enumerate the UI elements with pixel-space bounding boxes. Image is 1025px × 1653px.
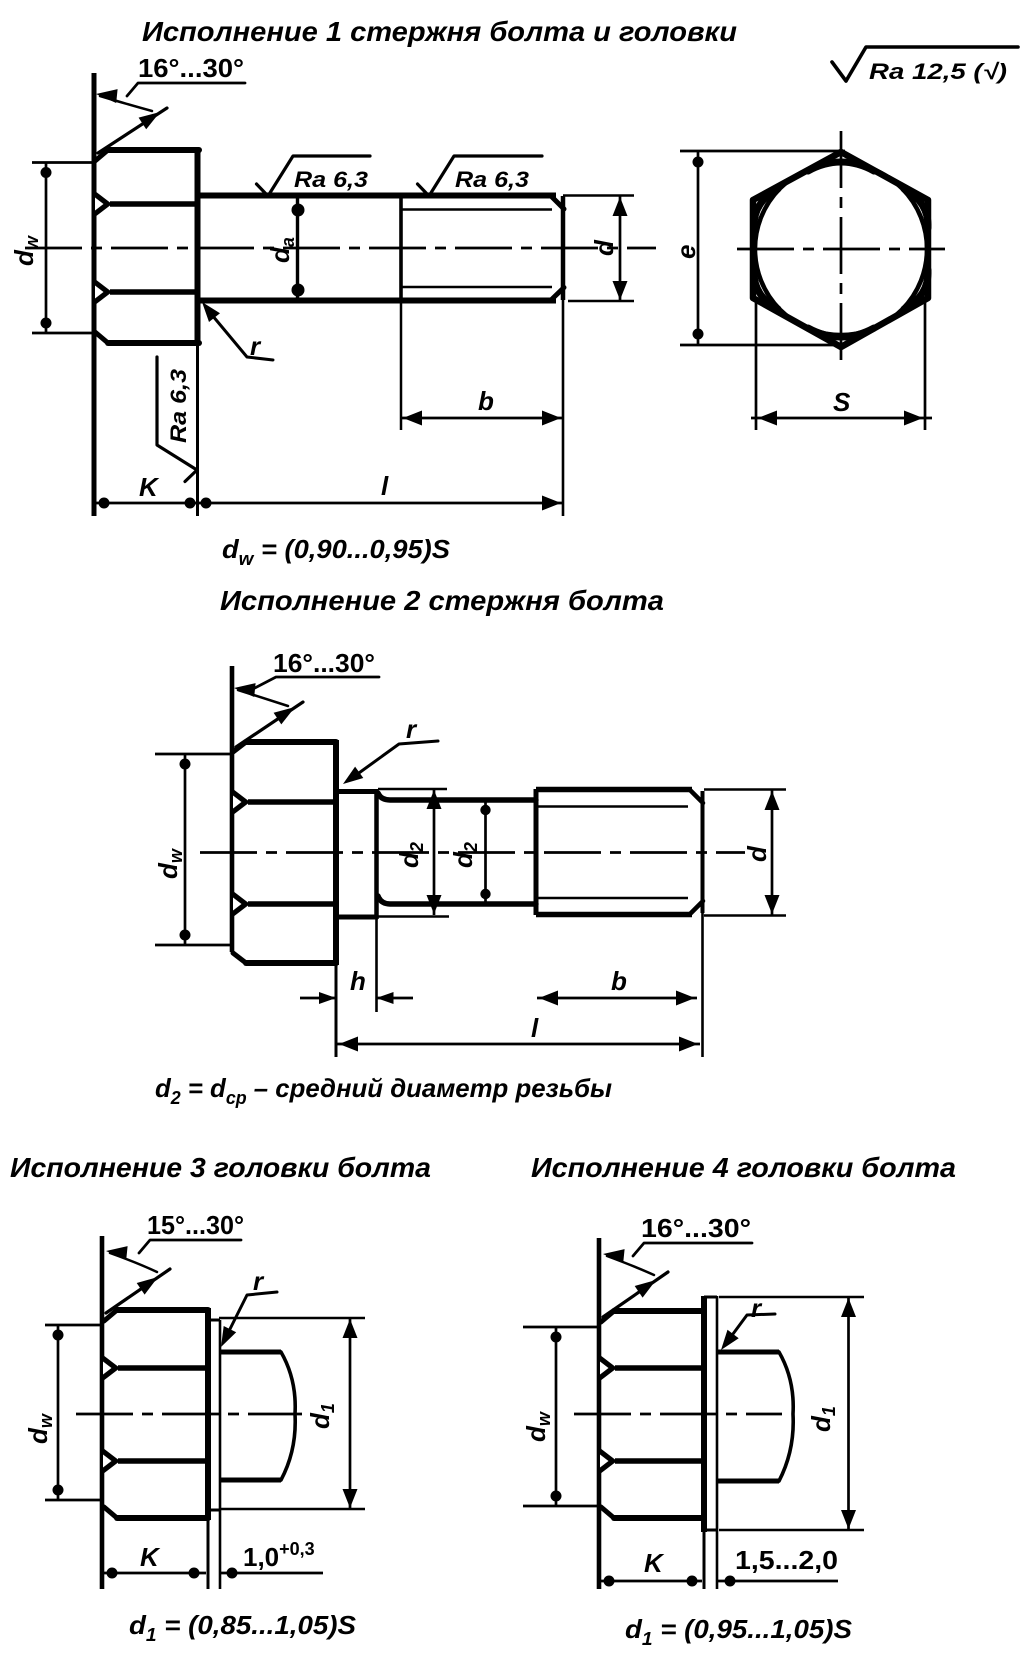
hex view vertical center line — [840, 131, 843, 368]
inscribed circle (washer face) — [755, 163, 927, 335]
svg-text:Исполнение 2 стержня болта: Исполнение 2 стержня болта — [220, 585, 664, 616]
svg-text:Ra 6,3: Ra 6,3 — [455, 167, 529, 192]
view2 head right edge extension down — [335, 965, 338, 1057]
view2 chamfer angle arrowhead — [274, 707, 295, 724]
head bottom-left chamfer — [95, 332, 108, 343]
h dim right tail — [376, 997, 413, 1000]
dim 1,5 dot — [725, 1576, 736, 1587]
view3 head right edge (flange left) — [205, 1308, 211, 1520]
svg-text:d2 = dср – средний диаметр рез: d2 = dср – средний диаметр резьбы — [155, 1073, 612, 1108]
chamfer arc bottom corner — [808, 328, 874, 337]
head right edge — [195, 148, 201, 345]
view4 flange bottom — [704, 1529, 717, 1532]
collar top line — [336, 789, 378, 794]
reduced shank top line — [378, 793, 536, 800]
view3 head bottom line — [117, 1515, 208, 1521]
angle leader — [127, 83, 245, 96]
view4 dome bottom line — [717, 1479, 779, 1484]
facet notch 1 — [93, 190, 112, 219]
K dimension line — [94, 502, 197, 505]
view4 K dimension line — [599, 1580, 702, 1583]
chamfer extension line — [98, 108, 167, 153]
collar bottom extension right — [378, 915, 449, 918]
view2 l right arrow — [679, 1037, 698, 1052]
chamfer arc upper-right corner — [904, 189, 928, 228]
view3 d_w bottom extension — [45, 1499, 102, 1502]
b left arrow — [403, 411, 422, 426]
view2 l dimension line — [337, 1043, 700, 1046]
view4 head right edge (flange left) — [701, 1296, 707, 1532]
shank bottom line — [199, 298, 556, 304]
hex head outline — [753, 152, 928, 347]
svg-text:K: K — [140, 1542, 161, 1572]
svg-text:d1 = (0,85...1,05)S: d1 = (0,85...1,05)S — [129, 1610, 357, 1645]
S right arrow — [904, 411, 923, 426]
view4 head bottom-left chamfer — [601, 1507, 614, 1518]
view2 thread minor bottom — [538, 897, 688, 900]
svg-text:S: S — [833, 387, 851, 417]
view4 K right dot — [687, 1576, 698, 1587]
view4 facet line 1 — [615, 1365, 704, 1371]
view4 d_w top extension — [523, 1326, 599, 1329]
thread start extension down — [400, 301, 403, 430]
e top extension line — [680, 150, 845, 153]
dim 1,0 dot — [227, 1568, 238, 1579]
thread start line — [399, 195, 403, 301]
view4 facet notch 1 — [598, 1354, 617, 1383]
view3 K left dot — [107, 1568, 118, 1579]
roughness Ra 6,3 on shank — [257, 156, 371, 196]
svg-text:16°...30°: 16°...30° — [641, 1213, 751, 1243]
view3 flange left extension down — [207, 1520, 210, 1589]
svg-text:Ra 12,5 (√): Ra 12,5 (√) — [869, 59, 1007, 84]
view4 flange right line — [716, 1296, 719, 1589]
view4 head top line — [614, 1308, 704, 1314]
view2 head top line — [246, 739, 336, 745]
head right edge extension down — [196, 345, 199, 516]
view3 angle leader arrow — [106, 1246, 128, 1260]
bolt end face — [561, 196, 566, 300]
view2 b left arrow — [539, 991, 558, 1006]
view4 r leader — [730, 1314, 775, 1338]
view2 angle leader arrow — [234, 683, 256, 697]
hex view horizontal center line — [737, 248, 945, 251]
view4 d1 top arrow — [841, 1298, 856, 1317]
S dimension line — [751, 417, 932, 420]
view2 angle dimension arc — [238, 690, 288, 706]
angle leader arrow — [96, 89, 118, 103]
view4 center line — [574, 1413, 782, 1416]
view4 d1 bottom extension — [719, 1529, 864, 1532]
view2 end face — [701, 791, 705, 913]
view3 angle dimension arc — [110, 1253, 157, 1272]
view2 d bottom extension — [704, 914, 786, 917]
thread minor diameter bottom — [402, 286, 552, 289]
b right arrow — [542, 411, 561, 426]
svg-text:b: b — [611, 966, 627, 996]
K right dot — [185, 498, 196, 509]
view3 facet line 2 — [118, 1458, 208, 1464]
view3 dome arc — [281, 1352, 295, 1480]
view2 d_w bottom dot — [180, 930, 191, 941]
dim 1,0+0,3 line — [220, 1572, 323, 1575]
view2 thread major top — [536, 787, 692, 792]
svg-text:e: e — [671, 245, 701, 259]
view4 angle leader arrow — [603, 1249, 625, 1263]
view2 head top-left chamfer — [233, 742, 246, 752]
view3 head bottom-left chamfer — [104, 1507, 117, 1518]
d_w bottom extension line — [32, 332, 94, 335]
K left dot — [99, 498, 110, 509]
h right arrow (outside) — [377, 992, 394, 1004]
view2 facet line 1 — [248, 799, 336, 805]
svg-text:d: d — [742, 845, 772, 862]
svg-text:h: h — [350, 966, 366, 996]
d2-1 bottom arrow — [427, 895, 442, 914]
view2 d_w bottom extension — [155, 944, 232, 947]
head bearing face / left extension line — [92, 73, 97, 516]
view4 angle dimension arc — [607, 1256, 654, 1275]
chamfer arc lower-right corner — [904, 270, 928, 309]
b dimension line — [401, 417, 563, 420]
view2 b dimension line — [537, 997, 697, 1000]
view2 facet notch 2 — [231, 890, 250, 919]
svg-text:Исполнение 4 головки болта: Исполнение 4 головки болта — [531, 1152, 956, 1183]
view3 head top line — [117, 1307, 208, 1313]
svg-text:Ra 6,3: Ra 6,3 — [294, 167, 368, 192]
view4 facet line 2 — [615, 1458, 704, 1464]
view3 center line — [76, 1413, 302, 1416]
d bottom arrow — [613, 281, 628, 300]
svg-text:Исполнение 1 стержня болта и г: Исполнение 1 стержня болта и головки — [142, 16, 737, 47]
view3 r leader — [228, 1292, 277, 1333]
view4 chamfer extension line — [603, 1272, 668, 1317]
collar right edge — [374, 789, 379, 919]
view3 flange bottom — [208, 1509, 220, 1512]
view4 d1 top extension — [719, 1296, 864, 1299]
d top arrow — [613, 197, 628, 216]
view4 d_w top dot — [551, 1332, 562, 1343]
svg-text:b: b — [478, 386, 494, 416]
view3 r leader arrow — [221, 1326, 236, 1347]
svg-text:d: d — [589, 239, 619, 256]
shank top line — [199, 193, 556, 199]
view3 d1 dimension line — [349, 1318, 352, 1509]
svg-text:Ra 6,3: Ra 6,3 — [166, 369, 191, 443]
view2 thread minor top — [538, 805, 688, 808]
d_a dimension line — [296, 196, 299, 300]
d dimension line — [619, 196, 622, 302]
view3 facet notch 2 — [101, 1447, 120, 1476]
view2 end face extension down — [701, 913, 704, 1057]
view4 d_w bottom dot — [551, 1491, 562, 1502]
view2 left extension line — [230, 666, 235, 952]
svg-text:1,5...2,0: 1,5...2,0 — [735, 1545, 838, 1575]
angle dimension arc — [100, 96, 152, 111]
e bottom dot — [693, 329, 704, 340]
svg-text:K: K — [644, 1548, 665, 1578]
view3 K right dot — [189, 1568, 200, 1579]
dim 1,5...2,0 line — [718, 1580, 838, 1583]
e bottom extension line — [680, 344, 845, 347]
view4 head top-left chamfer — [601, 1311, 614, 1322]
head facet line 2 — [110, 289, 199, 295]
view4 dome top line — [717, 1350, 779, 1355]
view3 left line — [100, 1236, 105, 1589]
view4 angle leader — [633, 1243, 752, 1256]
view2 head right edge — [333, 740, 339, 965]
d_w dimension line — [45, 163, 48, 334]
view2 facet notch 1 — [231, 788, 250, 817]
view3 dome top line — [220, 1350, 281, 1355]
view2 angle leader — [249, 677, 379, 691]
d_a top dot — [292, 204, 305, 217]
view2 end chamfer bottom — [690, 901, 703, 914]
view2 center line — [200, 851, 745, 854]
d_w top extension line — [32, 161, 94, 164]
roughness Ra 6,3 on thread — [418, 156, 543, 196]
view4 d1 bottom arrow — [841, 1510, 856, 1529]
svg-text:K: K — [139, 472, 160, 502]
view2 l left arrow — [339, 1037, 358, 1052]
view2 thread major bottom — [536, 912, 692, 917]
head top line — [108, 147, 199, 153]
view2 end chamfer top — [690, 790, 703, 803]
view3 d1 top extension — [219, 1317, 365, 1320]
view3 K dimension line — [102, 1572, 206, 1575]
svg-text:dw = (0,90...0,95)S: dw = (0,90...0,95)S — [222, 534, 451, 569]
d_a bottom dot — [292, 284, 305, 297]
S right extension line — [924, 299, 927, 430]
chamfer angle arrowhead — [139, 112, 160, 129]
S left extension line — [755, 299, 758, 430]
view4 head bottom line — [614, 1515, 704, 1521]
svg-text:16°...30°: 16°...30° — [138, 53, 244, 83]
e top dot — [693, 157, 704, 168]
view2 b right arrow — [676, 991, 695, 1006]
svg-text:l: l — [531, 1013, 539, 1043]
l left dot — [201, 498, 212, 509]
collar right edge extension down — [375, 919, 378, 1012]
d_w top arrow dot — [41, 167, 52, 178]
view3 facet line 1 — [118, 1365, 208, 1371]
view2 r leader line — [352, 741, 438, 778]
center line view 1 — [25, 247, 656, 250]
thread end chamfer top — [551, 196, 564, 209]
view3 chamfer extension line — [106, 1269, 170, 1313]
view3 flange top — [208, 1319, 220, 1322]
svg-text:l: l — [381, 471, 389, 501]
view2 d dimension line — [771, 790, 774, 916]
view2 d_w top extension — [155, 753, 232, 756]
view3 chamfer angle arrowhead — [137, 1277, 158, 1295]
view2 facet line 2 — [248, 901, 336, 907]
view3 d1 bottom arrow — [343, 1489, 358, 1508]
chamfer arc top corner — [808, 162, 874, 171]
r leader arrow — [202, 302, 220, 322]
svg-text:d1 = (0,95...1,05)S: d1 = (0,95...1,05)S — [625, 1614, 853, 1649]
view4 d_w dimension line — [555, 1327, 558, 1506]
end face extension down — [562, 300, 565, 516]
thread end chamfer bottom — [551, 288, 564, 301]
h left arrow (outside) — [319, 992, 336, 1004]
view3 d_w top dot — [53, 1330, 64, 1341]
view2 d_w dimension line — [184, 754, 187, 945]
view4 dome arc — [779, 1352, 793, 1481]
view4 d_w bottom extension — [523, 1505, 599, 1508]
view4 K left dot — [604, 1576, 615, 1587]
d top extension line — [563, 194, 634, 197]
view3 angle leader — [139, 1240, 241, 1253]
view3 dome bottom line — [220, 1478, 281, 1483]
chamfer arc upper-left corner — [754, 189, 778, 228]
view3 head top-left chamfer — [104, 1310, 117, 1321]
view2 head bottom-left chamfer — [233, 953, 246, 963]
view4 flange top — [704, 1296, 717, 1299]
d2-1 top arrow — [427, 790, 442, 809]
collar bottom line — [336, 915, 378, 920]
svg-text:16°...30°: 16°...30° — [273, 648, 375, 678]
d_w bottom arrow dot — [41, 318, 52, 329]
collar top extension right — [378, 788, 447, 791]
head top-left chamfer — [95, 150, 108, 161]
view2 thread start line — [534, 789, 539, 915]
view2 d bottom arrow — [765, 895, 780, 914]
view4 d1 dimension line — [847, 1297, 850, 1530]
l right arrow — [542, 496, 561, 511]
roughness Ra 6,3 on head bearing face (rotated) — [157, 357, 197, 482]
d bottom extension line — [568, 300, 634, 303]
view2 d top extension — [704, 788, 786, 791]
head bottom line — [108, 340, 199, 346]
e dimension line — [697, 151, 700, 345]
view3 d_w top extension — [45, 1324, 102, 1327]
svg-text:Исполнение 3 головки болта: Исполнение 3 головки болта — [10, 1152, 431, 1183]
view3 facet notch 1 — [101, 1354, 120, 1383]
view4 chamfer angle arrowhead — [635, 1280, 656, 1298]
l dimension line — [197, 502, 563, 505]
svg-text:15°...30°: 15°...30° — [147, 1210, 244, 1240]
view3 flange right line — [219, 1320, 222, 1589]
view2 d_w top dot — [180, 759, 191, 770]
r leader line — [207, 309, 273, 360]
head facet line 1 — [110, 201, 199, 207]
view3 d_w bottom dot — [53, 1485, 64, 1496]
general roughness note Ra 12,5 — [832, 47, 1018, 81]
thread minor diameter top — [402, 208, 552, 211]
view2 head bottom line — [246, 960, 336, 966]
view2 d top arrow — [765, 791, 780, 810]
view4 flange left extension down — [703, 1532, 706, 1589]
h dim left tail — [300, 997, 336, 1000]
d2 (shank) dimension line — [484, 800, 487, 904]
view2 chamfer extension line — [236, 702, 303, 747]
view3 d_w dimension line — [57, 1325, 60, 1500]
view4 facet notch 2 — [598, 1447, 617, 1476]
view3 d1 bottom extension — [219, 1508, 365, 1511]
facet notch 2 — [93, 278, 112, 307]
d2-2 bottom dot — [480, 889, 490, 899]
reduced shank bottom line — [378, 896, 536, 904]
S left arrow — [758, 411, 777, 426]
view3 d1 top arrow — [343, 1319, 358, 1338]
view4 left line — [597, 1238, 602, 1589]
d2-2 top dot — [480, 805, 490, 815]
view2 r leader arrow — [343, 767, 363, 784]
view4 r leader arrow — [721, 1330, 739, 1350]
d2 (collar) dimension line — [433, 789, 436, 915]
chamfer arc lower-left corner — [754, 270, 778, 309]
